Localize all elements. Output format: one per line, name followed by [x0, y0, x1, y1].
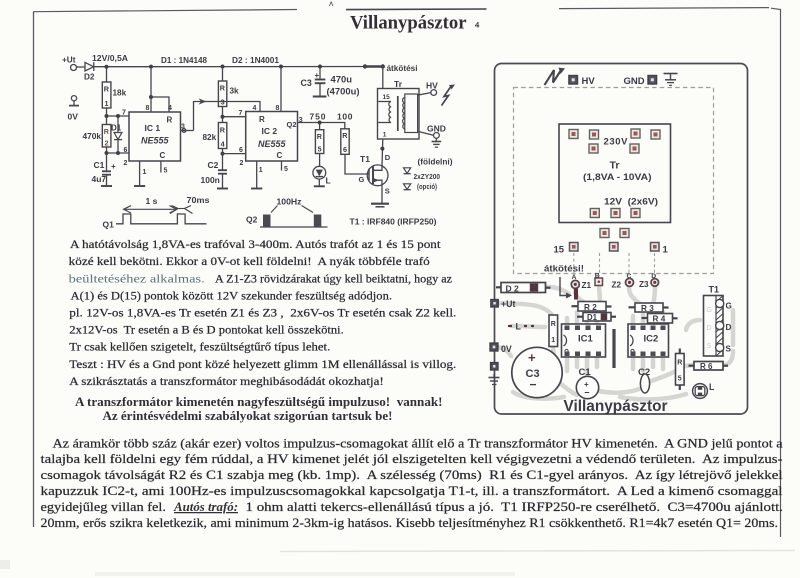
bottom scan smudge [0, 560, 10, 569]
svg-text:T1: T1 [709, 285, 720, 295]
svg-text:A(1) és D(15) pontok között 12: A(1) és D(15) pontok között 12V szekunde… [71, 289, 393, 303]
IC2 pin 1 ground [256, 161, 258, 189]
copper trace Ut to R1 [499, 303, 552, 315]
svg-text:(opció): (opció) [417, 184, 437, 191]
T1 pin holes [716, 299, 724, 307]
ground C1 [101, 185, 112, 187]
svg-text:IC2: IC2 [644, 334, 659, 345]
svg-text:230V: 230V [604, 137, 629, 148]
capacitor C2 [218, 169, 227, 171]
svg-text:D2: D2 [84, 73, 95, 82]
svg-text:R: R [104, 85, 110, 94]
svg-text:12V/0,5A: 12V/0,5A [92, 54, 128, 63]
resistor R5 PCB [676, 354, 685, 386]
page frame left border [33, 12, 35, 527]
svg-text:750: 750 [310, 111, 326, 121]
copper trace D pad to R4 [651, 288, 655, 313]
LED L PCB [693, 384, 708, 399]
resistor R3 PCB [635, 303, 663, 312]
junction dots on rail [105, 65, 109, 69]
svg-text:1: 1 [105, 99, 109, 108]
svg-text:R: R [342, 131, 348, 140]
wire pin7 row [107, 115, 130, 117]
page frame top-left segment [33, 10, 297, 12]
resistor R5 [319, 123, 321, 130]
copper trace 0V to C3 [495, 347, 511, 356]
svg-text:2x12V-os Tr esetén a B és D p: 2x12V-os Tr esetén a B és D pontokat kel… [69, 323, 344, 337]
LED L [319, 154, 321, 167]
wire pin6/2 row [106, 147, 108, 153]
ground LED [318, 179, 320, 186]
svg-text:3k: 3k [230, 87, 240, 96]
ground symbol at GND [435, 138, 437, 141]
wire secondary to HV [418, 93, 431, 96]
svg-text:15: 15 [554, 245, 565, 256]
svg-text:2: 2 [105, 139, 109, 148]
lightning icon [545, 70, 561, 85]
zener diode Z upper [404, 168, 411, 174]
svg-text:R: R [220, 126, 226, 135]
diode D2 PCB [501, 283, 546, 293]
wire rail to transformer [382, 67, 384, 89]
svg-text:HV: HV [426, 80, 438, 90]
wire R1 to node row [106, 108, 108, 116]
svg-text:+Ut: +Ut [501, 299, 515, 309]
svg-text:S: S [707, 343, 712, 350]
waveform Q2 trace [260, 226, 328, 228]
svg-text:R 3: R 3 [641, 304, 654, 313]
copper trace R1 bottom down [553, 346, 560, 368]
waveform Q1 trace [116, 214, 207, 224]
svg-text:pl. 12V-os 1,8VA-es Tr esetén: pl. 12V-os 1,8VA-es Tr esetén Z1 és Z3 ,… [69, 306, 456, 320]
transformer Tr outline on PCB [559, 124, 671, 223]
PCB board border [495, 64, 748, 415]
copper trace C3 to C1 [560, 383, 577, 395]
wire rail to IC2 pin8 [280, 67, 282, 112]
copper trace R6 to T1 [723, 351, 733, 365]
svg-text:egyidejűleg villan fel.: egyidejűleg villan fel. [41, 500, 167, 514]
svg-text:D1: D1 [111, 123, 122, 132]
wire Tr pin1 to T1 drain [381, 139, 384, 166]
svg-text:20mm, erős szikra keletkezik,: 20mm, erős szikra keletkezik, ami minimu… [41, 516, 778, 530]
svg-text:S: S [726, 345, 732, 354]
wire +Ut to D2 [77, 66, 86, 68]
svg-text:(4700u): (4700u) [327, 87, 360, 97]
svg-text:közé kell bekötni. Ekkor a 0V-: közé kell bekötni. Ekkor a 0V-ot kell fö… [69, 254, 430, 268]
Tr pad row1 [569, 129, 660, 238]
svg-text:4u7: 4u7 [92, 174, 107, 184]
svg-text:R: R [677, 360, 682, 367]
wire thick átkötési segment [365, 65, 383, 68]
svg-text:R: R [259, 115, 265, 124]
svg-text:Q2: Q2 [246, 214, 258, 224]
svg-text:C1: C1 [94, 160, 105, 170]
bottom faint rule [280, 551, 795, 552]
capacitor C3 [319, 67, 321, 80]
svg-text:R 4: R 4 [653, 315, 666, 324]
IC IC2 PCB [628, 324, 669, 357]
svg-text:talajba kell földelni egy fém: talajba kell földelni egy fém rúddal, a … [41, 452, 783, 466]
copper trace C1 to C2 [599, 389, 639, 393]
svg-text:Z2: Z2 [612, 281, 622, 290]
svg-text:4: 4 [475, 19, 480, 29]
svg-text:1: 1 [663, 245, 669, 256]
copper trace IC2 pin drops [631, 316, 636, 324]
svg-text:7: 7 [122, 110, 126, 117]
copper trace T1 right drop [731, 310, 736, 345]
svg-text:NE555: NE555 [258, 139, 287, 149]
svg-text:100: 100 [337, 111, 353, 121]
inductor L marking [508, 325, 512, 327]
wire junction to IC2 pin7 [223, 116, 246, 118]
svg-text:100Hz: 100Hz [277, 196, 302, 206]
title overline [346, 8, 487, 11]
svg-text:(1,8VA - 10VA): (1,8VA - 10VA) [583, 172, 652, 182]
ground symbol top right [664, 73, 678, 75]
svg-text:IC 2: IC 2 [262, 126, 278, 136]
svg-text:Teszt : HV és a Gnd pont közé: Teszt : HV és a Gnd pont közé helyezett … [69, 357, 456, 371]
node D pad [651, 279, 659, 287]
ground C3 [313, 96, 327, 98]
svg-text:82k: 82k [203, 133, 217, 142]
wire R4 to pin6/2 row [222, 149, 224, 170]
page frame top-right segment [559, 8, 769, 9]
pad 0V [490, 343, 498, 351]
svg-text:470u: 470u [331, 74, 353, 84]
copper trace bottom to LED [620, 394, 686, 399]
resistor R2 [106, 116, 108, 125]
svg-text:3: 3 [181, 124, 185, 131]
IC2 pin 5 stub [281, 161, 283, 171]
svg-text:G: G [726, 302, 732, 311]
svg-text:Villanypásztor: Villanypásztor [350, 13, 467, 33]
node HV [431, 90, 437, 96]
svg-text:8: 8 [146, 105, 150, 112]
svg-text:IC 1: IC 1 [145, 123, 161, 133]
svg-text:Z3: Z3 [639, 280, 649, 289]
svg-text:L: L [516, 322, 522, 332]
node GND [434, 133, 440, 139]
svg-text:IC1: IC1 [578, 334, 594, 345]
wire secondary to GND [418, 131, 434, 135]
svg-text:D 2: D 2 [506, 283, 520, 293]
svg-text:2xZY200: 2xZY200 [414, 174, 441, 181]
svg-text:átkötési: átkötési [387, 63, 418, 73]
wire R3 to R4 junction [222, 107, 224, 123]
svg-text:Z1: Z1 [582, 281, 592, 290]
page frame right border [771, 8, 781, 537]
IC IC1 PCB [562, 324, 606, 357]
svg-text:Az érintésvédelmi szabályokat: Az érintésvédelmi szabályokat szigorúan … [103, 409, 393, 423]
copper trace bottom bus [513, 392, 564, 399]
resistor R4 PCB [648, 314, 673, 324]
svg-text:−: − [530, 378, 537, 392]
pad ground left [491, 363, 499, 371]
svg-text:+Ut: +Ut [62, 56, 76, 65]
svg-text:A szikrásztatás a transzformát: A szikrásztatás a transzformátor meghibá… [69, 374, 384, 388]
wire rail to IC1 pins 8 and 4 [150, 67, 152, 112]
svg-text:R: R [317, 132, 323, 141]
node 0V symbol [71, 96, 76, 101]
resistor R4 [218, 123, 226, 149]
svg-text:−: − [584, 388, 589, 398]
svg-text:B: B [595, 273, 600, 280]
node C pad [626, 278, 634, 286]
dashed links pads to Z row [599, 253, 601, 276]
IC1 pin 3 output [181, 130, 194, 132]
svg-text:A hatótávolság 1,8VA-es trafóv: A hatótávolság 1,8VA-es trafóval 3-400m.… [70, 237, 441, 251]
svg-text:3: 3 [221, 98, 225, 107]
svg-text:D: D [651, 273, 656, 280]
svg-text:^: ^ [329, 0, 334, 10]
svg-text:HV: HV [582, 76, 596, 87]
svg-text:D: D [707, 325, 712, 332]
svg-text:R: R [104, 127, 110, 136]
svg-text:R 6: R 6 [700, 362, 713, 371]
svg-text:C: C [160, 151, 166, 160]
pad +Ut [491, 300, 499, 308]
resistor R6 [341, 129, 349, 155]
svg-text:18k: 18k [113, 89, 127, 98]
resistor R2 PCB [578, 302, 606, 312]
svg-text:6: 6 [239, 147, 243, 154]
svg-text:GND: GND [427, 123, 446, 133]
svg-text:1 ohm alatti tekercs-ellenállá: 1 ohm alatti tekercs-ellenállású típus a… [246, 500, 784, 514]
svg-text:0V: 0V [501, 344, 512, 354]
copper trace Z1 to R2 [575, 291, 585, 303]
svg-text:R: R [551, 321, 556, 328]
svg-text:L: L [709, 382, 715, 392]
svg-text:G: G [359, 175, 365, 184]
svg-text:2: 2 [240, 160, 244, 167]
copper trace L row [512, 326, 545, 327]
svg-text:+: + [528, 350, 536, 365]
capacitor C3 PCB [512, 347, 562, 397]
pad HV [569, 76, 578, 85]
node B pad [595, 278, 603, 286]
svg-text:Tr: Tr [610, 160, 620, 172]
ground C2 [217, 188, 228, 190]
svg-text:A: A [572, 274, 577, 281]
IC1 pin 1 ground [139, 161, 141, 186]
resistor R1 PCB [549, 315, 558, 347]
svg-text:6: 6 [343, 145, 347, 154]
copper trace B pad down [599, 286, 600, 300]
Tr core line [397, 96, 399, 131]
diode D1 [117, 116, 119, 133]
svg-text:1: 1 [259, 167, 263, 174]
svg-text:T1: T1 [360, 154, 370, 164]
ground T1 source [371, 203, 389, 205]
svg-text:D2 : 1N4001: D2 : 1N4001 [232, 56, 279, 65]
copper trace IC1 pin drops [565, 318, 570, 324]
op-amp/timer IC1 NE555 box [129, 112, 181, 161]
svg-text:470k: 470k [83, 132, 102, 141]
svg-text:4: 4 [253, 105, 257, 112]
svg-text:+: + [315, 71, 320, 80]
copper trace C pad to R3 [629, 288, 640, 304]
Tr primary coil [378, 101, 391, 103]
svg-text:C2: C2 [208, 160, 219, 170]
dashed PCB outline [514, 88, 714, 274]
node A pad [571, 280, 579, 288]
svg-text:Villanypásztor: Villanypásztor [564, 398, 668, 415]
jumper post [574, 289, 578, 300]
svg-text:R 2: R 2 [584, 303, 597, 312]
svg-text:A transzformátor kimenetén nag: A transzformátor kimenetén nagyfeszültsé… [75, 395, 443, 409]
node +Ut terminal [71, 65, 77, 71]
svg-text:D1: D1 [587, 313, 598, 322]
svg-text:D: D [385, 153, 391, 162]
pad GND [648, 76, 657, 85]
svg-text:5: 5 [164, 168, 168, 175]
copper trace C2 to R5 [651, 371, 676, 381]
wire link bar between ICs [612, 329, 615, 368]
svg-text:1 s: 1 s [146, 196, 158, 206]
svg-text:S: S [385, 187, 390, 196]
svg-text:D1 : 1N4148: D1 : 1N4148 [161, 56, 207, 65]
svg-text:átkötési!: átkötési! [544, 263, 584, 273]
copper trace R5 to R6 junction [684, 365, 695, 366]
resistor R6 PCB [694, 362, 723, 371]
svg-text:12V (2x6V): 12V (2x6V) [604, 196, 658, 206]
svg-text:Q2: Q2 [287, 120, 297, 129]
svg-text:7: 7 [239, 110, 243, 117]
svg-text:L: L [326, 176, 331, 186]
dimension arrows 70ms [170, 206, 178, 214]
svg-text:kapuzzuk IC2-t, ami 100Hz-es i: kapuzzuk IC2-t, ami 100Hz-es impulzuscso… [41, 484, 784, 498]
svg-text:Tr csak kellően szigetelt, fes: Tr csak kellően szigetelt, feszültségtűr… [69, 340, 330, 354]
svg-text:Tr: Tr [394, 79, 403, 89]
wire top supply rail [94, 66, 383, 68]
svg-text:100n: 100n [201, 175, 220, 185]
svg-text:1: 1 [143, 169, 147, 176]
svg-text:NE555: NE555 [141, 136, 170, 146]
IC1 pin 5 stub [160, 161, 162, 173]
resistor R1 [106, 67, 108, 82]
wire R6 to T1 gate [345, 154, 365, 174]
svg-text:5: 5 [318, 145, 322, 154]
transistor T1 MOSFET [367, 165, 388, 186]
svg-text:Az áramkör több száz (akár eze: Az áramkör több száz (akár ezer) voltos … [53, 436, 783, 450]
diode D1 PCB [583, 313, 611, 322]
dimension arrow 1 s [124, 208, 177, 210]
capacitor C1 [106, 153, 108, 171]
lightning arrow at HV [442, 87, 451, 106]
svg-text:+: + [111, 162, 116, 171]
svg-text:R: R [167, 116, 173, 125]
svg-text:Q1: Q1 [103, 220, 115, 230]
svg-text:4: 4 [221, 140, 225, 149]
jumper arrow marker [560, 277, 567, 296]
svg-text:8: 8 [276, 105, 280, 112]
svg-text:C: C [627, 273, 632, 280]
svg-text:R: R [220, 84, 226, 93]
svg-text:5: 5 [678, 376, 682, 383]
diode D2 [85, 62, 94, 71]
svg-text:2: 2 [124, 160, 128, 167]
ground symbol PCB left [489, 377, 500, 379]
svg-text:1: 1 [551, 337, 555, 344]
svg-text:1: 1 [383, 132, 387, 139]
svg-text:0V: 0V [68, 112, 79, 122]
svg-text:T1 : IRF840 (IRFP250): T1 : IRF840 (IRFP250) [350, 217, 437, 227]
svg-text:5: 5 [284, 166, 288, 173]
svg-text:G: G [707, 307, 712, 314]
svg-text:C: C [277, 151, 283, 160]
copper trace D2 to jumper [548, 287, 569, 294]
svg-text:(földelni): (földelni) [418, 157, 453, 166]
svg-text:15: 15 [383, 94, 391, 101]
timer IC2 NE555 box [246, 112, 298, 162]
copper trace T1 gate path [686, 320, 700, 330]
svg-text:C3: C3 [301, 78, 312, 88]
svg-text:GND: GND [624, 76, 645, 87]
svg-text:Autós trafó:: Autós trafó: [173, 500, 238, 514]
wire IC1 out to IC2 pin4 with arrow [194, 102, 261, 131]
Tr secondary coil [405, 94, 418, 133]
svg-text:4: 4 [168, 105, 172, 112]
svg-text:70ms: 70ms [187, 195, 210, 205]
resistor R3 [222, 67, 224, 82]
svg-text:A Z1-Z3 rövidzárakat úgy kell: A Z1-Z3 rövidzárakat úgy kell beiktatni,… [215, 271, 452, 285]
svg-text:beültetéséhez alkalmas.: beültetéséhez alkalmas. [69, 271, 205, 285]
Tr pad red centers [572, 132, 658, 236]
svg-text:D: D [726, 323, 732, 332]
svg-text:csomagok távolságát R2 és C1 s: csomagok távolságát R2 és C1 szabja meg … [41, 468, 784, 482]
svg-text:6: 6 [124, 147, 128, 154]
zener diode Z lower [404, 184, 411, 190]
